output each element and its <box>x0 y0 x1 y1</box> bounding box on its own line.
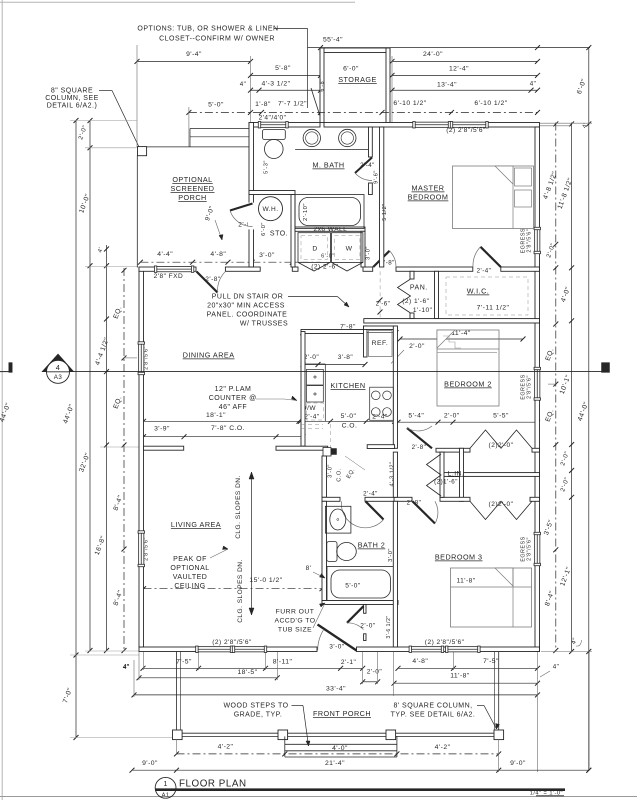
svg-text:2'-8": 2'-8" <box>205 276 221 283</box>
svg-text:55'-4": 55'-4" <box>323 37 343 44</box>
svg-text:PANEL. COORDINATE: PANEL. COORDINATE <box>207 312 288 319</box>
svg-text:2'8"/5'6": 2'8"/5'6" <box>144 537 150 561</box>
svg-text:4'-4": 4'-4" <box>157 251 173 258</box>
svg-text:(2) 2'8"/5'6": (2) 2'8"/5'6" <box>212 639 252 646</box>
svg-text:FLOOR PLAN: FLOOR PLAN <box>179 778 247 789</box>
svg-text:MASTER: MASTER <box>412 184 445 193</box>
svg-text:2'-4": 2'-4" <box>372 414 388 421</box>
svg-text:12" P.LAM: 12" P.LAM <box>215 386 252 393</box>
svg-text:2'4"/4'0": 2'4"/4'0" <box>259 115 287 122</box>
svg-text:18'-1": 18'-1" <box>206 412 226 419</box>
svg-text:7'-7 1/2": 7'-7 1/2" <box>278 101 307 108</box>
svg-text:6'-0": 6'-0" <box>343 66 359 73</box>
svg-text:2'8" FXD: 2'8" FXD <box>154 273 184 280</box>
svg-text:3'-0": 3'-0" <box>259 252 275 259</box>
svg-text:2'-10": 2'-10" <box>303 203 309 221</box>
svg-text:PULL DN STAIR OR: PULL DN STAIR OR <box>212 294 283 301</box>
svg-text:GRADE, TYP.: GRADE, TYP. <box>234 712 283 719</box>
svg-text:5'-3": 5'-3" <box>264 160 270 174</box>
svg-text:4'-8": 4'-8" <box>210 251 226 258</box>
svg-text:2'-1": 2'-1" <box>341 659 357 666</box>
svg-text:3'-0": 3'-0" <box>328 464 334 478</box>
svg-text:2'-8": 2'-8" <box>412 444 427 451</box>
svg-text:A1: A1 <box>162 792 170 798</box>
svg-text:BEDROOM 3: BEDROOM 3 <box>435 553 483 562</box>
svg-text:4: 4 <box>56 363 61 372</box>
svg-text:2'8"/5'6": 2'8"/5'6" <box>144 346 150 370</box>
svg-text:(2)1'-6": (2)1'-6" <box>434 479 458 486</box>
svg-text:2'-0": 2'-0" <box>409 343 425 350</box>
svg-text:2'-0": 2'-0" <box>360 623 376 630</box>
svg-text:3'-8": 3'-8" <box>338 354 354 361</box>
svg-text:9'-0": 9'-0" <box>510 760 526 767</box>
svg-text:W/ TRUSSES: W/ TRUSSES <box>240 321 288 328</box>
svg-text:2'-8": 2'-8" <box>407 500 422 507</box>
svg-text:SCREENED: SCREENED <box>171 184 215 193</box>
svg-text:TYP. SEE DETAIL 6/A2.: TYP. SEE DETAIL 6/A2. <box>391 712 476 719</box>
svg-text:6'-10 1/2": 6'-10 1/2" <box>393 100 426 107</box>
svg-text:C.O.: C.O. <box>342 422 358 429</box>
svg-text:11'-8": 11'-8" <box>450 672 470 679</box>
svg-text:18'-5": 18'-5" <box>237 669 257 676</box>
svg-text:BATH 2: BATH 2 <box>358 541 386 550</box>
svg-text:7'-11 1/2": 7'-11 1/2" <box>477 305 510 312</box>
svg-text:CLG. SLOPES DN.: CLG. SLOPES DN. <box>235 475 242 539</box>
svg-text:4": 4" <box>530 81 537 88</box>
svg-text:5'-0": 5'-0" <box>345 583 361 590</box>
svg-text:WOOD STEPS TO: WOOD STEPS TO <box>223 703 288 710</box>
svg-text:46" AFF: 46" AFF <box>219 404 247 411</box>
svg-text:OPTIONAL: OPTIONAL <box>172 175 212 184</box>
svg-text:4'-2": 4'-2" <box>435 744 451 751</box>
svg-text:2'-0": 2'-0" <box>304 354 320 361</box>
svg-text:(2) 2'8"/5'6": (2) 2'8"/5'6" <box>425 639 465 646</box>
svg-text:2'-0": 2'-0" <box>444 412 460 419</box>
svg-text:4": 4" <box>123 664 130 671</box>
svg-text:5'-4": 5'-4" <box>408 412 424 419</box>
svg-text:PEAK OF: PEAK OF <box>173 556 207 563</box>
svg-text:3'-6 1/2": 3'-6 1/2" <box>386 615 392 638</box>
svg-text:4'-3 1/2": 4'-3 1/2" <box>261 81 290 88</box>
svg-text:LIVING AREA: LIVING AREA <box>171 520 221 529</box>
svg-text:12'-4": 12'-4" <box>449 66 469 73</box>
svg-text:33'-4": 33'-4" <box>326 685 346 692</box>
svg-text:BEDROOM: BEDROOM <box>408 193 449 202</box>
svg-text:2x6 WALL: 2x6 WALL <box>313 226 347 233</box>
svg-text:COUNTER @: COUNTER @ <box>209 395 257 402</box>
svg-text:6'-0": 6'-0" <box>321 254 335 260</box>
svg-text:TUB SIZE: TUB SIZE <box>278 627 312 634</box>
svg-text:M. BATH: M. BATH <box>312 161 344 170</box>
svg-text:W.H.: W.H. <box>262 206 278 213</box>
svg-text:4": 4" <box>240 81 247 88</box>
svg-text:8' SQUARE COLUMN,: 8' SQUARE COLUMN, <box>393 703 472 710</box>
svg-text:4'-2": 4'-2" <box>218 744 234 751</box>
svg-text:9'-6": 9'-6" <box>374 170 380 184</box>
svg-text:ACCD'G TO: ACCD'G TO <box>274 618 315 625</box>
svg-text:4": 4" <box>553 664 560 671</box>
svg-text:(2)2'-0": (2)2'-0" <box>489 501 514 508</box>
svg-text:20"x30" MIN ACCESS: 20"x30" MIN ACCESS <box>207 303 285 310</box>
svg-text:11'-8": 11'-8" <box>456 578 475 585</box>
svg-text:2'-4": 2'-4" <box>477 268 492 275</box>
svg-text:5'-5": 5'-5" <box>493 412 509 419</box>
svg-text:L.IN.: L.IN. <box>448 470 465 477</box>
svg-text:1'-10": 1'-10" <box>413 307 433 314</box>
svg-text:6'-10 1/2": 6'-10 1/2" <box>474 100 507 107</box>
svg-text:W.I.C.: W.I.C. <box>467 287 490 296</box>
svg-text:C.O.: C.O. <box>337 468 343 482</box>
svg-text:15'-0 1/2": 15'-0 1/2" <box>249 577 282 584</box>
svg-text:STORAGE: STORAGE <box>338 75 377 84</box>
svg-text:7'-5": 7'-5" <box>483 658 499 665</box>
svg-text:3'-0": 3'-0" <box>329 644 345 651</box>
svg-text:6'-0": 6'-0" <box>261 222 267 236</box>
svg-text:2'8"/5'6": 2'8"/5'6" <box>526 537 532 561</box>
svg-text:D: D <box>312 246 317 253</box>
svg-text:FURR OUT: FURR OUT <box>276 609 315 616</box>
svg-text:BEDROOM 2: BEDROOM 2 <box>444 380 492 389</box>
svg-text:KITCHEN: KITCHEN <box>330 381 365 390</box>
svg-text:5 1/2": 5 1/2" <box>382 203 388 220</box>
svg-text:A3: A3 <box>54 374 63 381</box>
svg-text:(2) 2'8"/5'6": (2) 2'8"/5'6" <box>446 127 486 134</box>
svg-text:OPTIONAL: OPTIONAL <box>170 565 209 572</box>
svg-text:4'-0": 4'-0" <box>332 745 348 752</box>
svg-text:CEILING: CEILING <box>174 583 205 590</box>
svg-text:COLUMN, SEE: COLUMN, SEE <box>45 95 99 102</box>
svg-text:VAULTED: VAULTED <box>173 574 208 581</box>
svg-text:DETAIL 6/A2.): DETAIL 6/A2.) <box>47 103 98 110</box>
svg-text:13'-4": 13'-4" <box>437 82 457 89</box>
svg-text:3'-9": 3'-9" <box>154 426 170 433</box>
svg-text:7'-8" C.O.: 7'-8" C.O. <box>211 425 245 432</box>
svg-text:8" SQUARE: 8" SQUARE <box>51 88 93 95</box>
svg-text:7'-5": 7'-5" <box>176 658 192 665</box>
svg-text:CLOSET--CONFIRM W/ OWNER: CLOSET--CONFIRM W/ OWNER <box>159 36 275 43</box>
svg-text:5'-8": 5'-8" <box>275 65 291 72</box>
svg-text:9'-4": 9'-4" <box>186 51 202 58</box>
svg-text:9'-0": 9'-0" <box>142 760 158 767</box>
svg-text:6'-8": 6'-8" <box>320 78 326 91</box>
svg-text:5'-0": 5'-0" <box>208 102 224 109</box>
svg-text:PORCH: PORCH <box>178 193 206 202</box>
svg-text:3'-0": 3'-0" <box>366 246 372 260</box>
svg-text:1'-8": 1'-8" <box>255 101 271 108</box>
svg-text:5'-0": 5'-0" <box>341 413 357 420</box>
svg-text:21'-4": 21'-4" <box>325 760 345 767</box>
svg-text:4'-8": 4'-8" <box>412 658 428 665</box>
svg-text:2'-4": 2'-4" <box>360 162 375 169</box>
svg-text:2'-0": 2'-0" <box>367 669 383 676</box>
svg-text:8': 8' <box>306 565 312 572</box>
svg-text:24'-0": 24'-0" <box>423 51 443 58</box>
svg-text:W: W <box>346 246 353 253</box>
svg-text:1: 1 <box>163 779 168 788</box>
svg-text:PAN.: PAN. <box>410 285 428 292</box>
svg-text:FRONT PORCH: FRONT PORCH <box>313 709 371 718</box>
svg-text:STO.: STO. <box>270 231 288 238</box>
svg-text:2'-4": 2'-4" <box>363 491 378 498</box>
svg-text:OPTIONS: TUB, OR SHOWER & LINE: OPTIONS: TUB, OR SHOWER & LINEN <box>137 26 278 33</box>
svg-text:2'8"/5'6": 2'8"/5'6" <box>526 375 532 399</box>
svg-text:CLG. SLOPES DN.: CLG. SLOPES DN. <box>237 559 244 623</box>
svg-text:REF.: REF. <box>372 340 389 347</box>
svg-text:DINING AREA: DINING AREA <box>183 351 235 360</box>
svg-text:2'8"/5'6": 2'8"/5'6" <box>526 229 532 253</box>
svg-text:(2)2'-0": (2)2'-0" <box>489 442 514 449</box>
svg-text:8'-11": 8'-11" <box>273 658 293 665</box>
